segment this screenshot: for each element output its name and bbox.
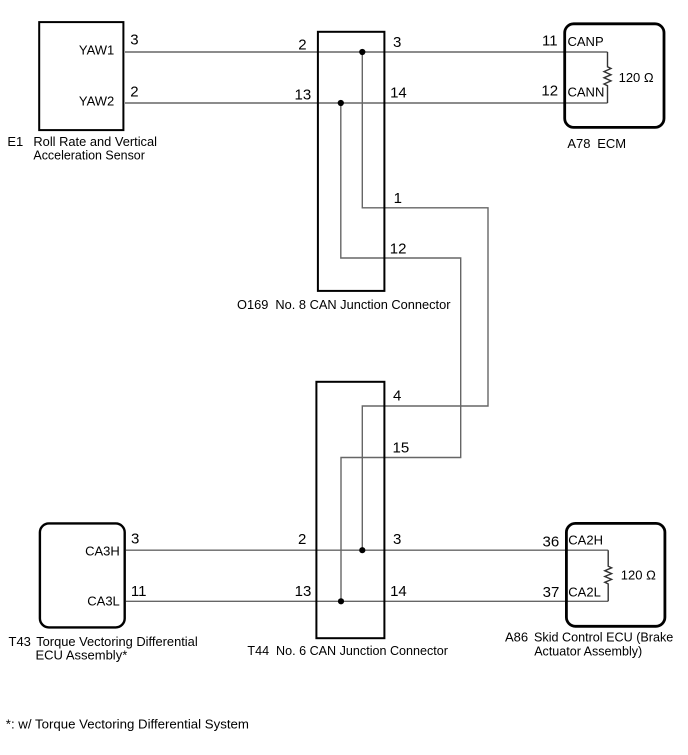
wire CANH top (E1 YAW1 to A78 CANP) [125, 51, 608, 53]
svg-text:12: 12 [541, 82, 558, 99]
svg-text:1: 1 [394, 190, 402, 207]
wire CANH bottom (T43 CA3H to A86 CA2H) [126, 549, 608, 551]
box T44 No. 6 CAN Junction Connector [316, 382, 384, 638]
svg-text:Skid Control ECU (Brake: Skid Control ECU (Brake [534, 629, 673, 644]
node junction dot on O169 pin 13 wire [338, 100, 344, 106]
svg-text:11: 11 [542, 32, 558, 49]
svg-text:T44 No. 6 CAN Junction Connec: T44 No. 6 CAN Junction Connector [247, 643, 448, 658]
wire branch O169 pin3 junction to T44 pin 4 (CANH trunk) [362, 52, 488, 550]
node junction dot on O169 pin 3 wire [359, 49, 365, 55]
box T43 Torque Vectoring Differential ECU Assembly [40, 523, 125, 627]
svg-text:4: 4 [393, 388, 401, 405]
svg-text:13: 13 [295, 87, 312, 104]
svg-text:E1: E1 [7, 134, 23, 149]
svg-text:YAW2: YAW2 [79, 94, 114, 109]
resistor R1 120 ohm inside A78 (zigzag) [604, 52, 611, 103]
wire CANL top (E1 YAW2 to A78 CANN) [125, 102, 608, 104]
svg-text:T43: T43 [9, 634, 31, 649]
svg-text:2: 2 [130, 84, 138, 101]
svg-text:3: 3 [393, 34, 401, 51]
resistor R2 120 ohm inside A86 (zigzag) [605, 550, 612, 601]
svg-text:12: 12 [390, 240, 407, 257]
svg-text:YAW1: YAW1 [79, 42, 114, 57]
wire CANL bottom (T43 CA3L to A86 CA2L) [126, 600, 608, 602]
svg-text:11: 11 [131, 583, 147, 600]
svg-text:CA3L: CA3L [87, 593, 120, 608]
svg-text:ECU Assembly*: ECU Assembly* [36, 647, 128, 662]
svg-text:A78: A78 [567, 136, 590, 151]
svg-text:CA3H: CA3H [85, 543, 120, 558]
svg-text:3: 3 [131, 531, 139, 548]
svg-text:Acceleration Sensor: Acceleration Sensor [33, 148, 145, 163]
box A78 ECM [565, 24, 664, 128]
box E1 Roll Rate and Vertical Acceleration Sensor [39, 22, 123, 130]
svg-text:36: 36 [543, 534, 560, 551]
svg-text:*: w/ Torque Vectoring Differe: *: w/ Torque Vectoring Differential Syst… [6, 717, 249, 732]
box O169 No. 8 CAN Junction Connector [318, 32, 385, 291]
svg-text:CANP: CANP [568, 34, 604, 49]
svg-text:120 Ω: 120 Ω [619, 70, 654, 85]
svg-text:2: 2 [298, 36, 306, 53]
svg-text:CA2H: CA2H [568, 532, 603, 547]
svg-text:13: 13 [295, 583, 312, 600]
svg-text:120 Ω: 120 Ω [621, 567, 656, 582]
svg-text:3: 3 [393, 531, 401, 548]
svg-text:14: 14 [390, 583, 407, 600]
wire branch O169 pin14 junction to T44 pin 15 (CANL trunk) [341, 103, 461, 601]
node junction dot on T44 pin 3 wire [359, 547, 365, 553]
svg-text:Actuator Assembly): Actuator Assembly) [534, 643, 642, 658]
svg-text:CA2L: CA2L [568, 585, 601, 600]
svg-text:14: 14 [390, 85, 407, 102]
svg-text:O169 No. 8 CAN Junction Conne: O169 No. 8 CAN Junction Connector [237, 297, 451, 312]
svg-text:CANN: CANN [568, 84, 605, 99]
node junction dot on T44 pin 14 wire [338, 598, 344, 604]
svg-text:A86: A86 [505, 629, 528, 644]
svg-text:15: 15 [393, 440, 410, 457]
svg-text:2: 2 [298, 531, 306, 548]
svg-text:ECM: ECM [597, 136, 626, 151]
svg-text:37: 37 [543, 584, 560, 601]
svg-text:3: 3 [130, 32, 138, 49]
box A86 Skid Control ECU [566, 523, 665, 626]
